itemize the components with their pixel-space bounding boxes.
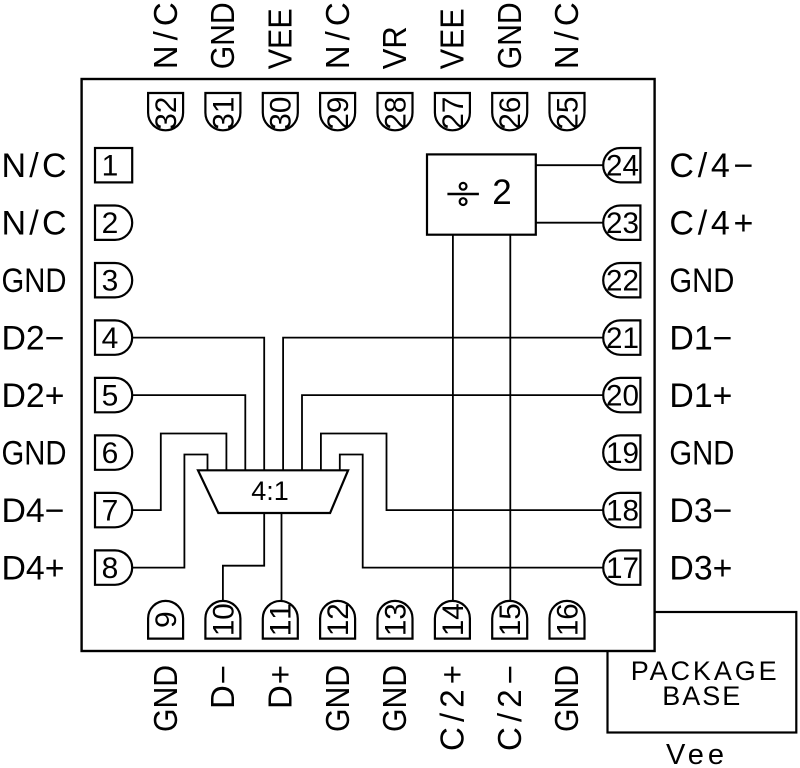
svg-text:D+: D+: [262, 665, 299, 709]
svg-text:N/C: N/C: [319, 2, 356, 69]
svg-text:30: 30: [265, 97, 298, 130]
svg-text:15: 15: [494, 603, 527, 636]
svg-text:C/2+: C/2+: [434, 665, 471, 751]
svg-text:32: 32: [150, 97, 183, 130]
svg-text:1: 1: [102, 150, 119, 183]
svg-text:12: 12: [322, 603, 355, 636]
svg-text:C/2−: C/2−: [491, 665, 528, 751]
svg-text:2: 2: [102, 207, 119, 240]
svg-text:GND: GND: [548, 665, 586, 732]
svg-text:20: 20: [606, 379, 639, 412]
svg-text:GND: GND: [376, 665, 414, 732]
svg-text:13: 13: [379, 603, 412, 636]
svg-text:19: 19: [606, 437, 639, 470]
svg-text:22: 22: [606, 264, 639, 297]
svg-text:D4+: D4+: [2, 549, 65, 587]
svg-text:D1−: D1−: [669, 319, 732, 357]
svg-text:GND: GND: [204, 2, 242, 69]
svg-text:28: 28: [379, 97, 412, 130]
svg-text:GND: GND: [669, 433, 734, 472]
svg-text:29: 29: [322, 97, 355, 130]
svg-text:D3+: D3+: [669, 549, 732, 587]
svg-text:23: 23: [606, 207, 639, 240]
svg-text:Vee: Vee: [666, 739, 724, 768]
svg-text:31: 31: [207, 97, 240, 130]
svg-text:10: 10: [207, 603, 240, 636]
svg-text:16: 16: [551, 603, 584, 636]
svg-text:D1+: D1+: [669, 377, 732, 415]
svg-text:6: 6: [102, 437, 119, 470]
svg-text:7: 7: [102, 495, 119, 528]
svg-text:VEE: VEE: [433, 8, 470, 69]
svg-text:2: 2: [492, 173, 511, 212]
svg-text:N/C: N/C: [2, 205, 67, 243]
svg-text:4: 4: [102, 322, 119, 355]
svg-text:GND: GND: [2, 433, 67, 472]
svg-text:N/C: N/C: [548, 2, 585, 69]
svg-text:GND: GND: [147, 665, 185, 732]
svg-text:GND: GND: [319, 665, 357, 732]
svg-text:26: 26: [494, 97, 527, 130]
svg-text:25: 25: [551, 97, 584, 130]
svg-text:4:1: 4:1: [251, 476, 289, 506]
svg-text:N/C: N/C: [147, 2, 184, 69]
svg-text:GND: GND: [491, 2, 529, 69]
svg-text:GND: GND: [669, 261, 734, 300]
svg-text:D3−: D3−: [669, 492, 732, 530]
svg-text:17: 17: [606, 552, 639, 585]
svg-text:3: 3: [102, 265, 119, 298]
svg-text:GND: GND: [2, 261, 67, 300]
svg-text:C/4−: C/4−: [669, 147, 753, 185]
svg-text:11: 11: [265, 603, 298, 636]
svg-text:BASE: BASE: [662, 681, 740, 711]
svg-text:24: 24: [606, 149, 639, 182]
svg-text:N/C: N/C: [2, 147, 67, 185]
svg-text:8: 8: [102, 552, 119, 585]
svg-text:14: 14: [437, 603, 470, 636]
svg-text:21: 21: [606, 322, 639, 355]
svg-text:D2+: D2+: [2, 377, 65, 415]
svg-text:27: 27: [437, 97, 470, 130]
svg-text:VR: VR: [376, 26, 413, 69]
svg-text:C/4+: C/4+: [669, 205, 753, 243]
svg-text:9: 9: [150, 611, 183, 628]
svg-text:D−: D−: [204, 665, 241, 709]
svg-text:VEE: VEE: [261, 8, 298, 69]
svg-text:D2−: D2−: [2, 319, 65, 357]
svg-text:5: 5: [102, 380, 119, 413]
svg-text:D4−: D4−: [2, 492, 65, 530]
svg-text:18: 18: [606, 494, 639, 527]
